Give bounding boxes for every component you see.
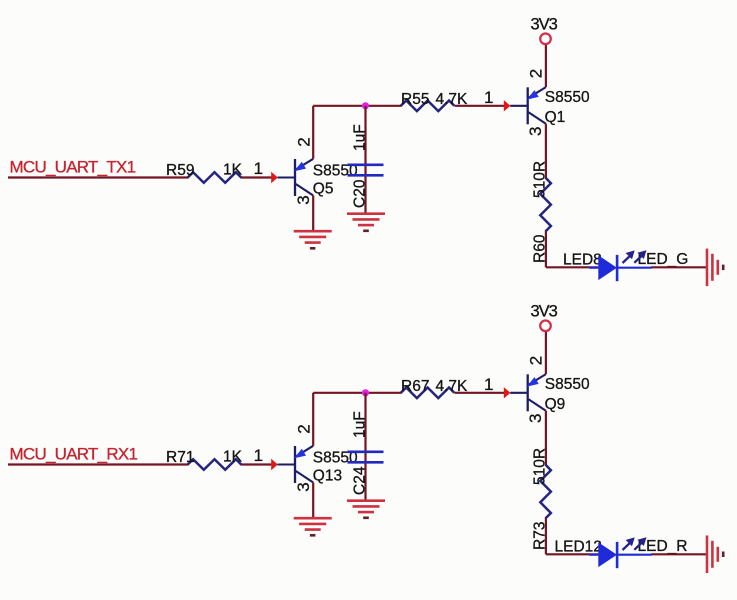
ground under Q5 (294, 230, 332, 233)
transistor Q13 S8550 (294, 446, 296, 483)
svg-text:R55: R55 (401, 91, 429, 108)
svg-text:MCU_UART_TX1: MCU_UART_TX1 (10, 158, 136, 177)
junction node at C20 (362, 102, 369, 109)
ground under Q13 (294, 517, 332, 520)
transistor Q1 S8550 (527, 87, 529, 124)
wire Q5 emitter up (312, 106, 314, 159)
svg-text:1: 1 (254, 446, 263, 465)
svg-text:R67: R67 (401, 378, 429, 395)
capacitor C20 plates (348, 164, 384, 167)
wire Q13 collector down (312, 483, 314, 519)
pin arrow into Q1 base (504, 100, 511, 111)
wire Q5 collector down (312, 196, 314, 232)
resistor R67 zigzag (401, 388, 455, 399)
svg-text:1: 1 (254, 159, 263, 178)
wire Q9 collector to R73 (545, 411, 547, 466)
svg-text:4.7K: 4.7K (436, 91, 469, 108)
svg-text:LED12: LED12 (555, 539, 602, 556)
svg-text:R59: R59 (166, 162, 194, 179)
pin arrow into Q13 base (271, 459, 278, 470)
wire MCU_UART_RX1 to R71 (8, 463, 189, 465)
wire MCU_UART_TX1 to R59 (8, 176, 189, 178)
pin arrow into Q5 base (271, 172, 278, 183)
wire R55 to Q1 base (455, 105, 505, 107)
wire R67 to Q9 base (455, 392, 505, 394)
svg-text:3: 3 (526, 414, 545, 423)
wire top row to junction (313, 392, 365, 394)
wire junction down to C20 (364, 106, 366, 214)
wire LED8 to ground (651, 266, 707, 268)
svg-text:R60: R60 (531, 234, 548, 263)
ground right of LED8 (706, 249, 709, 287)
svg-text:1K: 1K (223, 449, 243, 466)
ground under C20 (347, 212, 385, 215)
svg-text:LED8: LED8 (563, 252, 602, 269)
resistor R55 zigzag (401, 101, 455, 112)
svg-text:Q13: Q13 (313, 468, 342, 485)
wire LED12 to ground (651, 553, 707, 555)
svg-text:510R: 510R (531, 161, 548, 198)
svg-text:C20: C20 (351, 179, 368, 208)
svg-text:1: 1 (484, 375, 493, 394)
capacitor C24 plates (348, 450, 384, 453)
wire R60 down to LED row (545, 231, 547, 268)
transistor Q5 S8550 (294, 159, 296, 196)
wire 3V3 stub (545, 331, 547, 374)
svg-text:Q9: Q9 (545, 396, 566, 413)
svg-text:MCU_UART_RX1: MCU_UART_RX1 (10, 445, 138, 464)
wire R73 down to LED row (545, 518, 547, 555)
ground under C24 (347, 499, 385, 502)
light arrow 2 of LED12 (634, 541, 644, 550)
resistor R73 zigzag (540, 465, 551, 519)
transistor Q9 S8550 (527, 374, 529, 411)
wire junction to R67 (366, 392, 402, 394)
svg-text:R73: R73 (531, 522, 548, 550)
svg-text:1: 1 (484, 88, 493, 107)
junction node at C24 (362, 389, 369, 396)
power port 3V3 circle (540, 34, 551, 45)
svg-text:2: 2 (295, 137, 314, 146)
svg-text:Q5: Q5 (313, 181, 334, 198)
svg-text:R71: R71 (166, 449, 194, 466)
wire Q13 emitter up (312, 393, 314, 446)
resistor R60 zigzag (540, 178, 551, 232)
svg-text:2: 2 (527, 356, 546, 365)
wire LED row to LED12 (546, 553, 598, 555)
pin arrow into Q9 base (504, 387, 511, 398)
LED LED8 symbol (589, 267, 598, 269)
svg-text:1K: 1K (223, 162, 243, 179)
wire junction to R55 (366, 105, 402, 107)
svg-text:2: 2 (527, 69, 546, 78)
resistor R71 zigzag (188, 459, 242, 470)
svg-text:C24: C24 (351, 466, 368, 495)
resistor R59 zigzag (188, 172, 242, 183)
svg-text:S8550: S8550 (545, 89, 590, 106)
wire junction down to C24 (364, 393, 366, 501)
svg-text:4.7K: 4.7K (436, 378, 469, 395)
svg-text:1uF: 1uF (351, 411, 368, 438)
wire Q1 collector to R60 (545, 124, 547, 179)
power port 3V3 circle (540, 321, 551, 332)
light arrow 1 of LED8 (623, 254, 633, 263)
wire top row to junction (313, 105, 365, 107)
wire 3V3 stub (545, 44, 547, 87)
svg-text:3: 3 (526, 127, 545, 136)
wire R59 to Q5 base (241, 176, 273, 178)
svg-text:3V3: 3V3 (531, 16, 558, 34)
svg-text:3: 3 (294, 482, 313, 491)
svg-text:3V3: 3V3 (531, 303, 558, 321)
light arrow 1 of LED12 (623, 541, 633, 550)
svg-text:Q1: Q1 (545, 109, 566, 126)
svg-text:1uF: 1uF (351, 124, 368, 151)
LED LED12 symbol (589, 554, 598, 556)
svg-text:S8550: S8550 (545, 376, 590, 393)
svg-text:510R: 510R (531, 448, 548, 485)
wire R71 to Q13 base (241, 463, 273, 465)
svg-text:2: 2 (295, 424, 314, 433)
wire LED row to LED8 (546, 266, 598, 268)
svg-text:3: 3 (294, 195, 313, 204)
ground right of LED12 (706, 536, 709, 574)
light arrow 2 of LED8 (634, 254, 644, 263)
